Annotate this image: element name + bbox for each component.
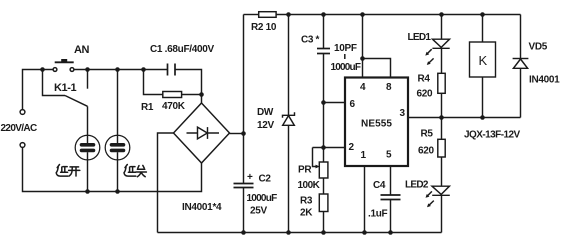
wire C4 bottom bbox=[390, 200, 392, 233]
wire C3 upper bbox=[323, 15, 325, 49]
relay K bbox=[470, 42, 496, 77]
label 延关 (hand-drawn glyphs) bbox=[124, 165, 146, 177]
node pad2 bottom bbox=[115, 189, 120, 194]
wire top rail bbox=[276, 14, 520, 16]
svg-text:JQX-13F-12V: JQX-13F-12V bbox=[464, 130, 521, 141]
node pin4/8 tee bbox=[360, 56, 365, 61]
wire pin5 down bbox=[390, 166, 392, 195]
svg-text:4: 4 bbox=[360, 82, 366, 93]
svg-text:620: 620 bbox=[417, 89, 434, 100]
capacitor C4 bbox=[381, 195, 401, 200]
svg-text:6: 6 bbox=[350, 99, 356, 110]
wire top-left AC rail left of AN bbox=[23, 70, 54, 110]
wire bottom ground rail bbox=[158, 232, 442, 234]
node C2 bottom bbox=[241, 230, 246, 235]
wire pins 2-6 vertical bbox=[323, 54, 325, 163]
svg-text:.1uF: .1uF bbox=[368, 209, 388, 220]
svg-text:R5: R5 bbox=[421, 129, 434, 140]
resistor R1 bbox=[163, 92, 182, 98]
wire pad2 bottom bbox=[117, 160, 119, 192]
wire LED1 to R4 bbox=[441, 48, 443, 73]
wire R1 branch bbox=[144, 70, 163, 95]
svg-text:2K: 2K bbox=[300, 208, 313, 219]
node pin3/R4 bbox=[439, 115, 444, 120]
wire VD5 lower bbox=[520, 68, 522, 117]
wire ground drop from bridge left bbox=[158, 133, 174, 233]
wire pin4 riser bbox=[362, 15, 364, 79]
resistor R2 bbox=[259, 12, 276, 18]
svg-text:AN: AN bbox=[74, 44, 90, 56]
wire AC lower rail bbox=[23, 148, 202, 192]
wire DW line lower bbox=[288, 125, 290, 232]
svg-text:K1-1: K1-1 bbox=[54, 82, 77, 94]
svg-text:LED2: LED2 bbox=[405, 180, 429, 191]
bridge inner diode bbox=[187, 127, 220, 139]
svg-text:100K: 100K bbox=[298, 180, 321, 191]
node on AC rail at K1-1 right bbox=[85, 67, 90, 72]
wire AC rail right of AN bbox=[74, 69, 167, 71]
resistor R4 bbox=[438, 73, 445, 93]
node pin4 top rail bbox=[360, 12, 365, 17]
svg-text:8: 8 bbox=[386, 82, 392, 93]
svg-text:3: 3 bbox=[400, 108, 406, 119]
wire pin8 bracket bbox=[363, 59, 391, 79]
LED2 bbox=[426, 186, 450, 207]
LED1 bbox=[425, 39, 449, 65]
op-amp U1 NE555 body bbox=[345, 78, 408, 167]
node pin1 ground bbox=[362, 230, 367, 235]
wire K top bbox=[482, 15, 484, 43]
svg-text:10PF: 10PF bbox=[334, 43, 357, 54]
node pin2 bbox=[321, 145, 326, 150]
svg-text:5: 5 bbox=[386, 150, 392, 161]
svg-text:1000uF: 1000uF bbox=[247, 193, 278, 204]
svg-text:R3: R3 bbox=[300, 196, 313, 207]
svg-text:220V/AC: 220V/AC bbox=[1, 123, 37, 134]
svg-text:IN4001*4: IN4001*4 bbox=[182, 202, 222, 213]
node pin3/K bbox=[480, 115, 485, 120]
wire DW line upper bbox=[288, 15, 290, 116]
svg-text:IN4001: IN4001 bbox=[529, 75, 560, 86]
wire K bottom bbox=[482, 77, 484, 118]
wire pad1 bottom bbox=[87, 160, 89, 192]
node R1 right bbox=[199, 92, 204, 97]
wire pin1 down bbox=[364, 166, 366, 233]
wire top rail left segment bbox=[244, 14, 259, 16]
wire pin3 output bbox=[408, 117, 521, 119]
wire pad2 riser bbox=[117, 70, 119, 136]
svg-text:NE555: NE555 bbox=[361, 119, 392, 130]
svg-text:2: 2 bbox=[349, 142, 355, 153]
svg-text:C1 .68uF/400V: C1 .68uF/400V bbox=[150, 44, 215, 55]
svg-text:C2: C2 bbox=[259, 174, 272, 185]
svg-text:K: K bbox=[479, 53, 488, 68]
resistor R5 bbox=[438, 139, 445, 157]
svg-text:R2 10: R2 10 bbox=[251, 22, 277, 33]
node pad1 bottom bbox=[85, 189, 90, 194]
capacitor C3 bbox=[317, 49, 330, 54]
node DW top bbox=[286, 12, 291, 17]
svg-text:DW: DW bbox=[257, 107, 274, 118]
pushbutton AN bbox=[53, 59, 74, 71]
node C1/R1 left bbox=[141, 67, 146, 72]
node pad2 top bbox=[115, 67, 120, 72]
zener DW bbox=[283, 112, 295, 125]
wire R5 to LED2 bbox=[441, 157, 443, 186]
node DW bottom bbox=[286, 230, 291, 235]
diode VD5 bbox=[513, 59, 529, 69]
svg-text:12V: 12V bbox=[257, 120, 275, 131]
svg-text:PR: PR bbox=[298, 165, 312, 176]
label 延开 (hand-drawn glyphs) bbox=[56, 165, 80, 177]
wire blade to pad1 bbox=[87, 106, 89, 136]
svg-text:+: + bbox=[247, 172, 253, 183]
relay contact K1-1 bbox=[43, 70, 88, 107]
svg-text:620: 620 bbox=[418, 146, 435, 157]
bridge rectifier diamond bbox=[174, 103, 230, 163]
svg-text:R1: R1 bbox=[141, 102, 154, 113]
touch pad 延开 bbox=[75, 135, 100, 160]
svg-text:1000uF: 1000uF bbox=[331, 62, 361, 73]
touch pad 延关 bbox=[105, 135, 130, 160]
wire PR to R3 bbox=[323, 178, 325, 194]
wire LED1 top bbox=[441, 15, 443, 40]
svg-text:25V: 25V bbox=[250, 206, 268, 217]
svg-text:C3: C3 bbox=[301, 35, 314, 46]
node C4 ground bbox=[388, 230, 393, 235]
wire C1 right to corner bbox=[175, 70, 202, 104]
node pin6 bbox=[321, 100, 326, 105]
svg-text:C4: C4 bbox=[373, 180, 386, 191]
node C3 top bbox=[321, 12, 326, 17]
node on AC rail at K1-1 left bbox=[40, 67, 45, 72]
wire R4 bottom bbox=[441, 93, 443, 117]
wire R3 bottom bbox=[323, 212, 325, 233]
wire R1 right bbox=[182, 94, 202, 96]
potentiometer PR bbox=[313, 148, 328, 179]
node LED1 top bbox=[439, 12, 444, 17]
wire LED2 bottom to ground rail bbox=[441, 195, 443, 232]
wire pin6 stub bbox=[324, 102, 346, 104]
capacitor C2 bbox=[234, 184, 254, 188]
wire plus rail vertical bbox=[243, 15, 245, 184]
resistor R3 bbox=[319, 194, 328, 212]
terminal 2 bbox=[20, 143, 25, 148]
svg-text:1: 1 bbox=[361, 150, 367, 161]
svg-text:R4: R4 bbox=[418, 74, 431, 85]
wire C2 bottom bbox=[243, 188, 245, 233]
capacitor C1 bbox=[168, 64, 176, 76]
wire VD5 upper bbox=[520, 15, 522, 59]
tick between values bbox=[344, 54, 346, 59]
terminal 1 bbox=[20, 110, 25, 115]
node bridge + bbox=[241, 131, 246, 136]
wire pin2 stub bbox=[313, 147, 346, 149]
svg-text:VD5: VD5 bbox=[529, 42, 548, 53]
node K top bbox=[480, 12, 485, 17]
node R3 bottom bbox=[321, 230, 326, 235]
svg-text:LED1: LED1 bbox=[408, 32, 432, 43]
wire bridge right stub bbox=[230, 133, 244, 135]
svg-text:*: * bbox=[316, 35, 320, 46]
svg-text:470K: 470K bbox=[162, 101, 186, 112]
wire R5 top bbox=[441, 118, 443, 140]
